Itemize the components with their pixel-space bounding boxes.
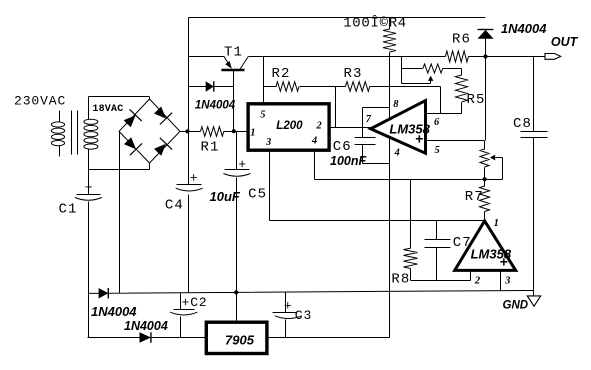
svg-text:5: 5	[435, 145, 440, 156]
svg-text:8: 8	[393, 99, 399, 110]
svg-text:OUT: OUT	[551, 35, 579, 49]
svg-text:4: 4	[311, 136, 317, 147]
svg-text:C3: C3	[295, 308, 312, 323]
svg-text:R8: R8	[391, 272, 410, 288]
svg-text:1N4004: 1N4004	[195, 100, 236, 112]
svg-text:6: 6	[434, 117, 440, 128]
svg-text:C1: C1	[59, 201, 78, 217]
svg-text:230VAC: 230VAC	[14, 94, 66, 109]
svg-text:3: 3	[265, 137, 271, 148]
svg-text:+: +	[238, 157, 247, 172]
svg-text:R1: R1	[201, 139, 220, 155]
svg-text:+: +	[85, 180, 94, 195]
svg-text:100nF: 100nF	[330, 154, 366, 168]
svg-text:3: 3	[504, 275, 510, 286]
svg-text:C6: C6	[333, 139, 352, 155]
svg-text:T1: T1	[224, 45, 243, 61]
svg-text:+: +	[190, 171, 199, 186]
svg-text:1N4004: 1N4004	[91, 304, 137, 319]
svg-text:18VAC: 18VAC	[92, 104, 123, 115]
svg-text:+: +	[284, 298, 293, 313]
svg-text:2: 2	[474, 275, 481, 286]
svg-text:4: 4	[394, 148, 400, 159]
svg-text:10uF: 10uF	[210, 189, 241, 204]
svg-text:+C2: +C2	[182, 295, 208, 310]
svg-text:5: 5	[260, 109, 265, 120]
svg-text:+: +	[500, 254, 508, 270]
svg-text:C8: C8	[513, 116, 532, 132]
svg-text:C5: C5	[248, 187, 267, 203]
svg-text:1N4004: 1N4004	[501, 21, 547, 36]
svg-text:7905: 7905	[225, 332, 255, 347]
svg-text:R2: R2	[272, 66, 291, 82]
svg-text:1N4004: 1N4004	[124, 319, 168, 333]
svg-text:C7: C7	[453, 235, 472, 251]
svg-text:LM358: LM358	[389, 122, 430, 137]
svg-text:R5: R5	[467, 92, 486, 108]
svg-text:+: +	[415, 130, 423, 146]
svg-text:C4: C4	[165, 198, 184, 214]
svg-text:R6: R6	[452, 31, 471, 47]
svg-text:GND: GND	[503, 300, 529, 312]
svg-text:100Î©R4: 100Î©R4	[343, 13, 407, 31]
svg-text:2: 2	[316, 121, 323, 132]
svg-text:R3: R3	[344, 66, 363, 82]
svg-text:1: 1	[494, 218, 499, 229]
svg-text:1: 1	[250, 128, 255, 139]
svg-text:L200: L200	[276, 120, 303, 132]
svg-text:7: 7	[366, 114, 372, 125]
svg-text:R7: R7	[465, 189, 484, 205]
